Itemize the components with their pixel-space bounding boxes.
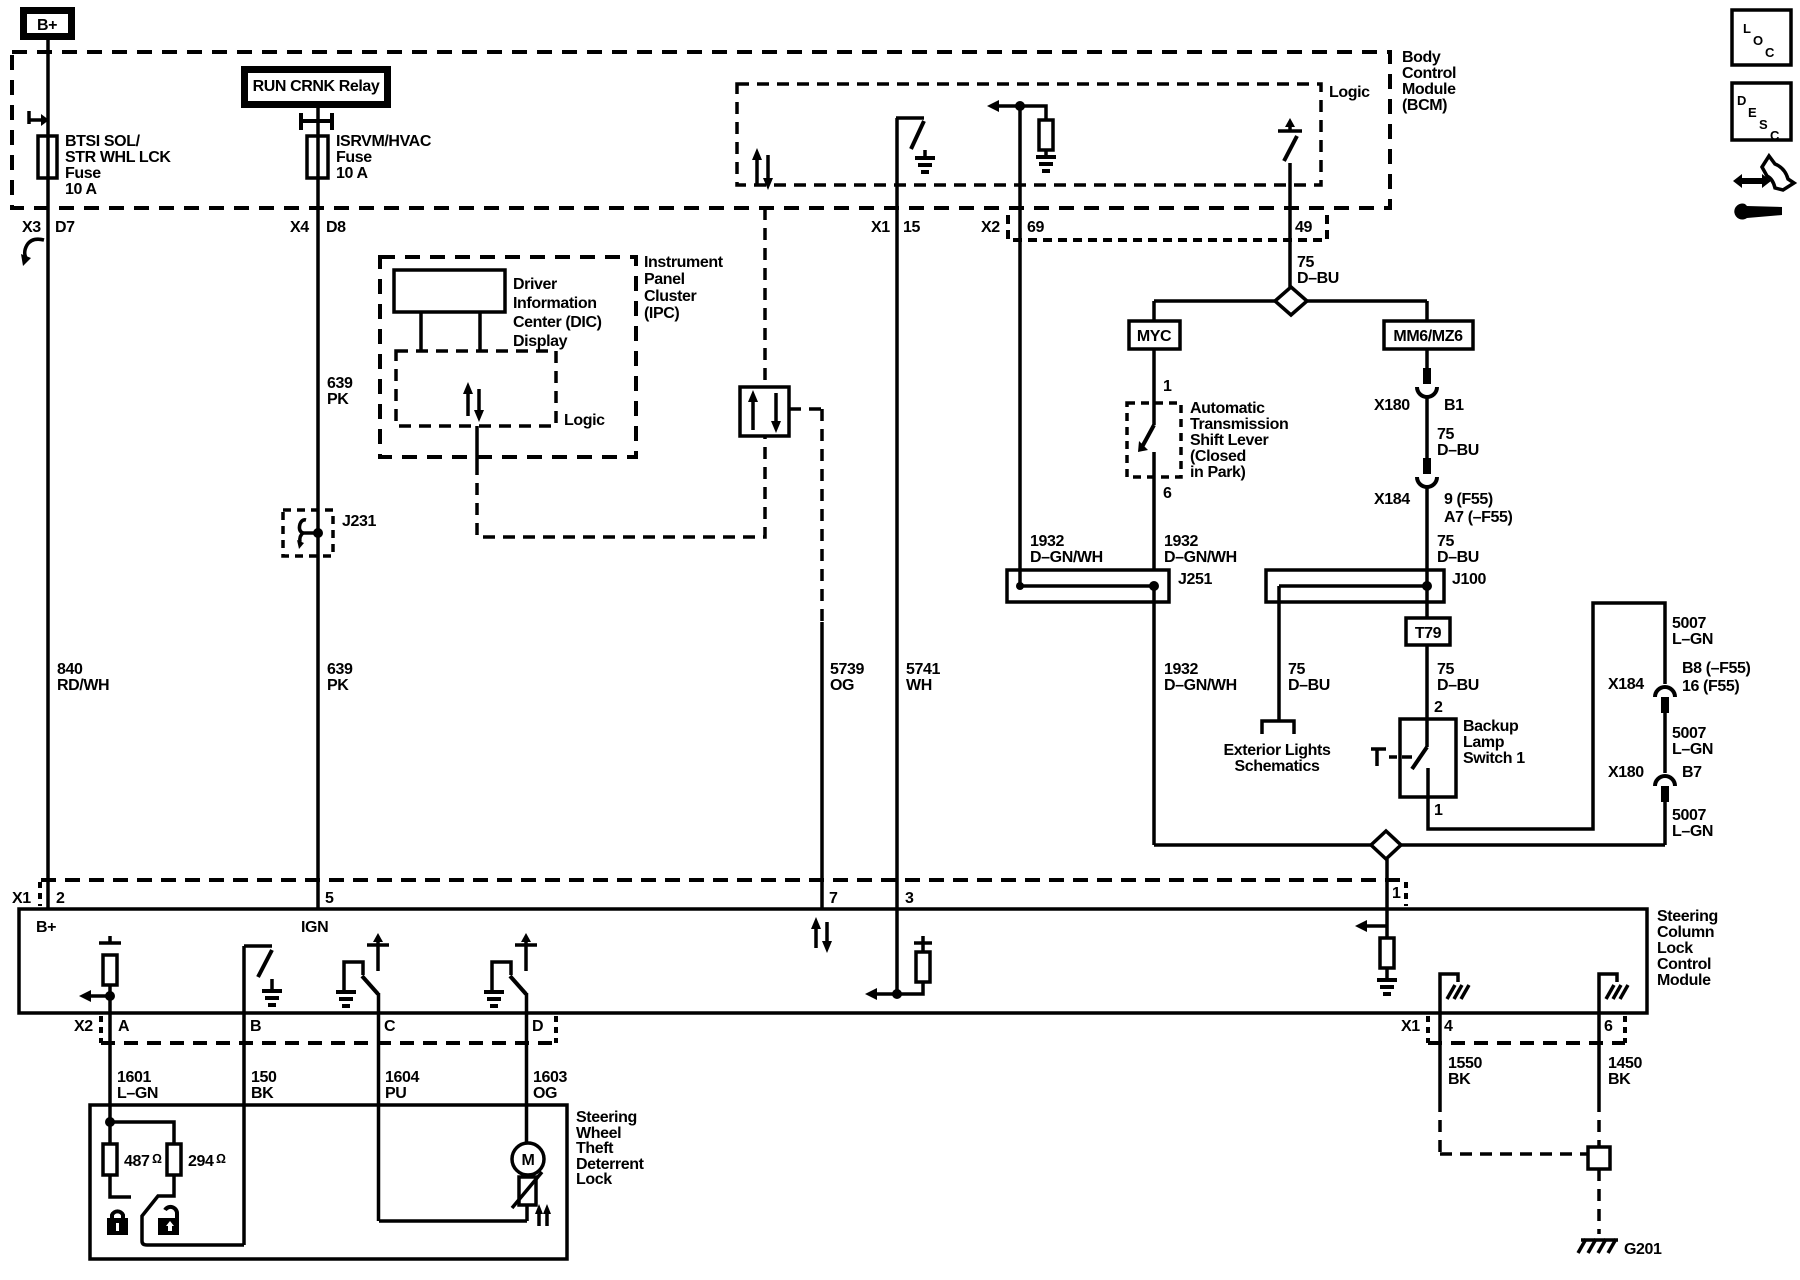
svg-text:75: 75 [1437,533,1454,550]
svg-text:L–GN: L–GN [1672,631,1713,648]
svg-text:5007: 5007 [1672,615,1706,632]
svg-text:Backup: Backup [1463,718,1519,735]
svg-text:4: 4 [1444,1018,1453,1035]
svg-text:Ω: Ω [216,1151,226,1166]
svg-text:D–BU: D–BU [1437,442,1479,459]
svg-text:J251: J251 [1178,571,1212,588]
svg-text:X184: X184 [1608,676,1644,693]
svg-text:S: S [1759,117,1768,132]
svg-text:Switch 1: Switch 1 [1463,750,1525,767]
svg-text:MYC: MYC [1137,328,1172,345]
svg-text:1932: 1932 [1164,533,1198,550]
svg-text:9 (F55): 9 (F55) [1444,491,1493,508]
svg-text:Information: Information [513,295,597,312]
svg-text:J100: J100 [1452,571,1486,588]
svg-text:7: 7 [829,890,838,907]
svg-text:1550: 1550 [1448,1055,1482,1072]
svg-text:D–GN/WH: D–GN/WH [1164,677,1237,694]
svg-text:Fuse: Fuse [65,165,101,182]
svg-text:A: A [118,1018,130,1035]
svg-text:Center (DIC): Center (DIC) [513,314,602,331]
svg-text:5741: 5741 [906,661,940,678]
svg-text:X1: X1 [1401,1018,1420,1035]
svg-text:840: 840 [57,661,83,678]
svg-text:C: C [1765,45,1775,60]
svg-text:PU: PU [385,1085,406,1102]
svg-text:O: O [1753,33,1763,48]
svg-text:D8: D8 [326,219,346,236]
svg-text:E: E [1748,105,1757,120]
svg-text:639: 639 [327,661,353,678]
svg-text:3: 3 [905,890,914,907]
svg-text:D–GN/WH: D–GN/WH [1164,549,1237,566]
svg-text:J231: J231 [342,513,376,530]
svg-text:L–GN: L–GN [1672,741,1713,758]
svg-text:WH: WH [906,677,932,694]
svg-text:D–BU: D–BU [1288,677,1330,694]
svg-text:6: 6 [1604,1018,1613,1035]
svg-text:Display: Display [513,333,568,350]
svg-text:A7 (–F55): A7 (–F55) [1444,509,1512,526]
svg-text:M: M [522,1152,535,1169]
svg-text:1603: 1603 [533,1069,567,1086]
svg-text:Ω: Ω [152,1151,162,1166]
svg-text:STR WHL LCK: STR WHL LCK [65,149,171,166]
svg-text:150: 150 [251,1069,277,1086]
svg-text:Lock: Lock [1657,940,1693,957]
svg-text:69: 69 [1027,219,1044,236]
svg-text:1: 1 [1392,885,1401,902]
svg-text:Automatic: Automatic [1190,400,1265,417]
svg-text:1932: 1932 [1030,533,1064,550]
svg-text:(Closed: (Closed [1190,448,1246,465]
svg-text:X1: X1 [871,219,890,236]
svg-text:X1: X1 [12,890,31,907]
svg-text:PK: PK [327,677,349,694]
svg-text:B: B [250,1018,261,1035]
svg-text:75: 75 [1437,661,1454,678]
svg-text:L–GN: L–GN [1672,823,1713,840]
svg-text:BK: BK [1608,1071,1631,1088]
svg-text:1932: 1932 [1164,661,1198,678]
svg-text:OG: OG [830,677,854,694]
svg-text:5739: 5739 [830,661,864,678]
svg-text:639: 639 [327,375,353,392]
svg-text:L–GN: L–GN [117,1085,158,1102]
svg-text:Driver: Driver [513,276,557,293]
svg-text:B7: B7 [1682,764,1702,781]
svg-text:5007: 5007 [1672,807,1706,824]
svg-text:1: 1 [1163,378,1172,395]
svg-text:X180: X180 [1374,397,1410,414]
svg-text:1: 1 [1434,802,1443,819]
svg-text:B+: B+ [37,17,57,34]
svg-text:10 A: 10 A [336,165,368,182]
svg-text:BK: BK [251,1085,274,1102]
svg-text:1601: 1601 [117,1069,151,1086]
svg-text:2: 2 [1434,699,1443,716]
svg-text:Steering: Steering [576,1109,637,1126]
svg-text:1450: 1450 [1608,1055,1642,1072]
svg-text:ISRVM/HVAC: ISRVM/HVAC [336,133,432,150]
svg-text:BK: BK [1448,1071,1471,1088]
svg-text:D–BU: D–BU [1437,677,1479,694]
svg-text:487: 487 [124,1153,150,1170]
svg-text:IGN: IGN [301,919,328,936]
svg-text:PK: PK [327,391,349,408]
svg-text:OG: OG [533,1085,557,1102]
svg-text:10 A: 10 A [65,181,97,198]
svg-text:49: 49 [1295,219,1312,236]
svg-text:Lamp: Lamp [1463,734,1505,751]
svg-text:75: 75 [1288,661,1305,678]
svg-text:B+: B+ [36,919,56,936]
svg-text:Logic: Logic [564,412,605,429]
svg-text:C: C [384,1018,396,1035]
svg-text:X184: X184 [1374,491,1410,508]
svg-text:15: 15 [903,219,920,236]
svg-text:L: L [1743,21,1751,36]
svg-text:D: D [1737,93,1746,108]
svg-text:16 (F55): 16 (F55) [1682,678,1739,695]
svg-text:Fuse: Fuse [336,149,372,166]
svg-text:Exterior Lights: Exterior Lights [1224,742,1331,759]
svg-text:X180: X180 [1608,764,1644,781]
svg-text:Shift Lever: Shift Lever [1190,432,1268,449]
svg-text:1604: 1604 [385,1069,419,1086]
svg-text:X3: X3 [22,219,41,236]
svg-text:Instrument: Instrument [644,254,724,271]
svg-text:RD/WH: RD/WH [57,677,109,694]
svg-text:D–BU: D–BU [1297,270,1339,287]
svg-text:Body: Body [1402,49,1441,66]
svg-text:RUN CRNK Relay: RUN CRNK Relay [253,78,380,95]
svg-text:B1: B1 [1444,397,1464,414]
svg-text:(IPC): (IPC) [644,305,679,322]
svg-text:X4: X4 [290,219,309,236]
svg-text:Lock: Lock [576,1171,612,1188]
svg-text:75: 75 [1297,254,1314,271]
svg-text:294: 294 [188,1153,214,1170]
svg-text:Module: Module [1657,972,1711,989]
svg-text:6: 6 [1163,485,1172,502]
svg-text:in Park): in Park) [1190,464,1246,481]
svg-text:Cluster: Cluster [644,288,696,305]
svg-text:Theft: Theft [576,1140,614,1157]
svg-text:C: C [1770,128,1780,143]
svg-text:(BCM): (BCM) [1402,97,1447,114]
svg-text:5007: 5007 [1672,725,1706,742]
svg-text:X2: X2 [74,1018,93,1035]
svg-text:Transmission: Transmission [1190,416,1288,433]
svg-text:D–BU: D–BU [1437,549,1479,566]
svg-text:Logic: Logic [1329,84,1370,101]
svg-text:T79: T79 [1415,625,1442,642]
svg-text:75: 75 [1437,426,1454,443]
svg-text:B8 (–F55): B8 (–F55) [1682,660,1750,677]
svg-text:D–GN/WH: D–GN/WH [1030,549,1103,566]
svg-text:Control: Control [1657,956,1711,973]
svg-text:MM6/MZ6: MM6/MZ6 [1393,328,1463,345]
svg-text:Schematics: Schematics [1235,758,1320,775]
svg-text:5: 5 [325,890,334,907]
svg-text:Panel: Panel [644,271,685,288]
svg-text:X2: X2 [981,219,1000,236]
svg-text:BTSI SOL/: BTSI SOL/ [65,133,141,150]
svg-text:Column: Column [1657,924,1714,941]
svg-text:D7: D7 [55,219,75,236]
svg-text:2: 2 [56,890,65,907]
svg-text:Steering: Steering [1657,908,1718,925]
svg-text:Module: Module [1402,81,1456,98]
svg-text:Control: Control [1402,65,1456,82]
svg-text:G201: G201 [1624,1241,1662,1258]
svg-text:D: D [532,1018,543,1035]
